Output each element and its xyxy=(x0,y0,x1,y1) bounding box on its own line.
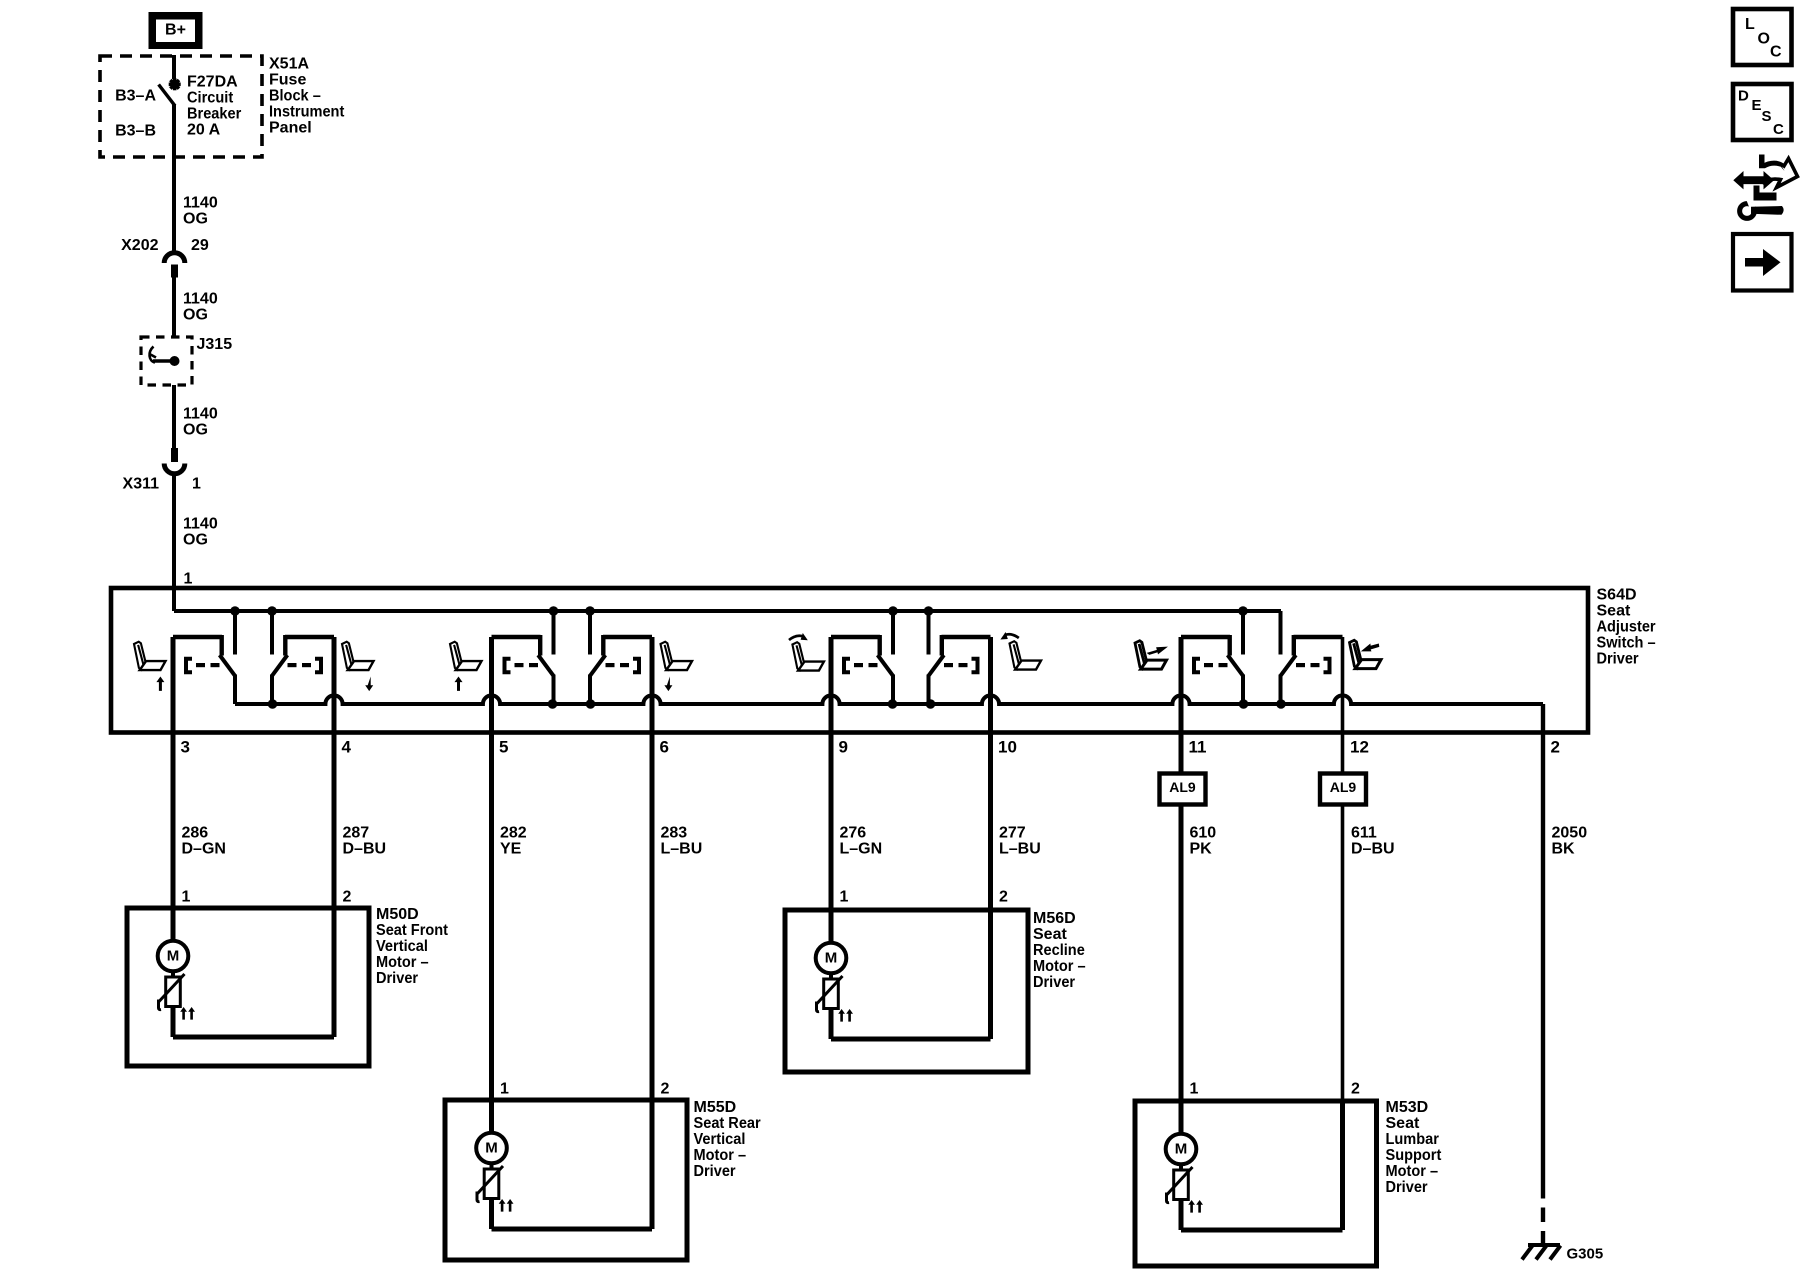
switch front vertical up: movable lever xyxy=(220,655,235,704)
switch recline up: body xyxy=(831,635,880,656)
svg-text:M: M xyxy=(167,948,180,965)
svg-text:2: 2 xyxy=(999,889,1008,906)
motor M56D armature circle M xyxy=(816,943,847,974)
seat icon recline forward with curved arrow xyxy=(789,633,824,671)
svg-text:B+: B+ xyxy=(165,22,186,39)
svg-text:Seat: Seat xyxy=(1597,603,1631,620)
switch front vertical up: body xyxy=(173,635,222,656)
svg-text:M: M xyxy=(1175,1141,1188,1158)
svg-text:283: 283 xyxy=(661,825,688,842)
wire 2050 BK (pin 2 down) xyxy=(1541,735,1545,1184)
svg-text:OG: OG xyxy=(183,307,208,324)
svg-text:6: 6 xyxy=(660,737,669,756)
fuse block X51A dashed outline xyxy=(100,56,262,157)
svg-text:BK: BK xyxy=(1552,841,1576,858)
svg-text:2: 2 xyxy=(1551,737,1560,756)
svg-text:Motor –: Motor – xyxy=(376,954,429,971)
motor M53D wire circle to thermal element xyxy=(1179,1164,1183,1171)
switch front vertical down: body xyxy=(285,635,334,656)
svg-text:Driver: Driver xyxy=(1386,1179,1428,1196)
switch front vertical down: bracket and link dashes xyxy=(288,659,322,672)
wire 611 D-BU (pin 12 to AL9) xyxy=(1341,637,1345,774)
common wire drop to pin 2 xyxy=(1541,704,1545,735)
svg-text:Driver: Driver xyxy=(1597,651,1639,668)
svg-text:OG: OG xyxy=(183,211,208,228)
wire 1140 OG segment 1 xyxy=(172,104,176,251)
svg-text:Switch –: Switch – xyxy=(1597,635,1656,652)
wire 1140 OG segment 2 xyxy=(172,278,176,338)
switch common return wire (to pin 2) xyxy=(235,695,1543,704)
svg-text:1140: 1140 xyxy=(183,406,218,423)
svg-text:1: 1 xyxy=(840,889,849,906)
junction dots on common wire xyxy=(268,699,1286,709)
svg-text:1: 1 xyxy=(184,571,193,588)
seat icon rear-vertical up with up arrow xyxy=(450,642,482,670)
switch rear vertical up: bracket and link dashes xyxy=(505,659,539,672)
seat icon lumbar in with right arrow xyxy=(1135,641,1167,669)
motor M53D outline box xyxy=(1135,1101,1377,1266)
svg-text:L–BU: L–BU xyxy=(999,841,1041,858)
svg-text:C: C xyxy=(1770,44,1782,61)
motor M56D wire circle to thermal element xyxy=(829,973,833,980)
wire 282 YE (pin 5 to M55D pin 1) xyxy=(489,637,494,1133)
switch recline down: movable lever xyxy=(929,655,944,704)
svg-text:286: 286 xyxy=(182,825,209,842)
switch contact stub (bus dot) for lumbar up xyxy=(1238,606,1248,616)
motor M53D thermal protector xyxy=(1167,1167,1193,1203)
switch contact stub (bus dot) for recline up xyxy=(888,606,898,616)
motor M55D armature circle M xyxy=(476,1133,507,1164)
nav icon next-page arrow box xyxy=(1733,234,1792,291)
switch rear vertical down: movable lever xyxy=(590,655,605,704)
wire 1140 OG segment 4 xyxy=(172,475,176,588)
switch rear vertical up: body xyxy=(492,635,541,656)
svg-text:X51A: X51A xyxy=(269,56,309,73)
svg-text:D: D xyxy=(1738,88,1749,105)
svg-text:1: 1 xyxy=(192,476,201,493)
svg-text:1140: 1140 xyxy=(183,291,218,308)
svg-text:611: 611 xyxy=(1351,825,1377,842)
motor M56D direction arrows xyxy=(838,1009,853,1022)
seat icon front-vertical down with down arrow xyxy=(342,642,374,670)
svg-text:276: 276 xyxy=(840,825,867,842)
circuit breaker F27DA contact star xyxy=(169,78,181,90)
motor M50D wire circle to thermal element xyxy=(171,971,175,978)
svg-text:Motor –: Motor – xyxy=(694,1147,747,1164)
motor M50D direction arrows xyxy=(180,1007,195,1020)
svg-text:PK: PK xyxy=(1190,841,1213,858)
bus wire from pin 1 inside S64D xyxy=(172,588,176,611)
switch front vertical up: bracket and link dashes xyxy=(186,659,220,672)
switch recline up: movable lever xyxy=(878,655,893,704)
motor M55D thermal protector xyxy=(477,1166,503,1202)
svg-text:L–BU: L–BU xyxy=(661,841,703,858)
circuit breaker F27DA lever xyxy=(159,85,175,106)
svg-text:O: O xyxy=(1758,31,1770,48)
svg-text:Seat Front: Seat Front xyxy=(376,922,449,939)
svg-text:G305: G305 xyxy=(1567,1246,1604,1263)
svg-text:5: 5 xyxy=(499,737,508,756)
svg-text:Fuse: Fuse xyxy=(269,72,306,89)
svg-text:L–GN: L–GN xyxy=(840,841,883,858)
wire 283 L-BU (pin 6 to M55D pin 2) xyxy=(650,637,655,1100)
svg-text:Seat Rear: Seat Rear xyxy=(694,1115,761,1132)
svg-text:2050: 2050 xyxy=(1552,825,1588,842)
svg-text:Motor –: Motor – xyxy=(1033,958,1086,975)
svg-text:M: M xyxy=(825,950,838,967)
switch contact stub (bus dot) for rear vertical down xyxy=(585,606,595,616)
switch recline up: bracket and link dashes xyxy=(844,659,878,672)
svg-text:1: 1 xyxy=(1190,1081,1199,1098)
svg-text:Motor –: Motor – xyxy=(1386,1163,1439,1180)
pin number labels of S64D xyxy=(181,737,1560,756)
svg-text:OG: OG xyxy=(183,422,208,439)
motor M50D armature circle M xyxy=(158,941,189,972)
switch contact stub (bus dot) for lumbar down xyxy=(1279,611,1283,655)
svg-text:Instrument: Instrument xyxy=(269,104,345,121)
svg-text:AL9: AL9 xyxy=(1169,779,1196,795)
svg-text:Breaker: Breaker xyxy=(187,106,241,123)
svg-text:D–BU: D–BU xyxy=(343,841,387,858)
svg-text:L: L xyxy=(1745,16,1755,33)
switch lumbar down: bracket and link dashes xyxy=(1296,659,1330,672)
svg-text:287: 287 xyxy=(343,825,370,842)
switch lumbar down: movable lever xyxy=(1281,655,1296,704)
splice J315 symbol xyxy=(150,347,180,367)
connector X311 symbol (pin + half circle) xyxy=(164,448,185,474)
seat icon front-vertical up with up arrow xyxy=(134,642,166,670)
svg-text:29: 29 xyxy=(191,237,209,254)
switch recline down: bracket and link dashes xyxy=(944,659,978,672)
svg-text:AL9: AL9 xyxy=(1330,779,1357,795)
svg-text:Driver: Driver xyxy=(694,1163,736,1180)
svg-text:B3–B: B3–B xyxy=(115,123,156,140)
svg-text:D–GN: D–GN xyxy=(182,841,226,858)
svg-text:E: E xyxy=(1752,97,1762,114)
wire 2050 BK dashed continuation to ground xyxy=(1541,1184,1545,1243)
svg-text:282: 282 xyxy=(500,825,527,842)
svg-text:2: 2 xyxy=(1351,1081,1360,1098)
svg-text:Vertical: Vertical xyxy=(694,1131,746,1148)
svg-text:20 A: 20 A xyxy=(187,122,221,139)
svg-text:X202: X202 xyxy=(121,237,158,254)
svg-text:Panel: Panel xyxy=(269,120,312,137)
switch recline down: body xyxy=(942,635,991,656)
connector X202 symbol (half circle + pin) xyxy=(164,253,185,278)
wire 610 PK (pin 11 to AL9) xyxy=(1179,637,1184,774)
svg-text:1140: 1140 xyxy=(183,195,218,212)
wire 277 L-BU (pin 10 to M56D pin 2) xyxy=(988,637,993,910)
switch assembly S64D outline box xyxy=(111,588,1588,733)
svg-text:Adjuster: Adjuster xyxy=(1597,619,1656,636)
svg-text:12: 12 xyxy=(1350,737,1369,756)
svg-text:M: M xyxy=(485,1140,498,1157)
power symbol B+ (battery positive terminal box) xyxy=(149,12,203,49)
svg-text:10: 10 xyxy=(998,737,1017,756)
connector AL9 on wire 611 xyxy=(1320,774,1366,805)
motor M55D wire circle to thermal element xyxy=(490,1163,494,1170)
svg-text:Circuit: Circuit xyxy=(187,90,234,107)
motor M56D outline box xyxy=(785,910,1028,1072)
switch contact stub (bus dot) for front vertical down xyxy=(267,606,277,616)
svg-text:C: C xyxy=(1773,121,1784,138)
motor M56D internal return wire xyxy=(831,910,991,1039)
seat icon rear-vertical down with down arrow xyxy=(661,642,693,670)
bus wire horizontal xyxy=(174,609,1281,613)
switch contact stub (bus dot) for recline down xyxy=(924,606,934,616)
svg-text:Seat: Seat xyxy=(1033,926,1067,943)
svg-text:2: 2 xyxy=(343,889,352,906)
svg-text:S64D: S64D xyxy=(1597,587,1637,604)
splice J315 dashed box xyxy=(141,337,192,385)
switch lumbar down: body xyxy=(1294,635,1343,656)
svg-text:B3–A: B3–A xyxy=(115,88,156,105)
svg-text:YE: YE xyxy=(500,841,522,858)
svg-text:M56D: M56D xyxy=(1033,910,1076,927)
wire 276 L-GN (pin 9 to M56D pin 1) xyxy=(829,637,834,943)
nav icon LOC box xyxy=(1733,9,1792,65)
svg-text:4: 4 xyxy=(342,737,352,756)
svg-text:F27DA: F27DA xyxy=(187,74,238,91)
svg-text:1: 1 xyxy=(500,1081,509,1098)
wire 610 PK (AL9 to M53D pin 1) xyxy=(1179,805,1184,1134)
wire 611 D-BU (AL9 to M53D pin 2) xyxy=(1341,805,1345,1102)
svg-text:Driver: Driver xyxy=(376,970,418,987)
motor M55D direction arrows xyxy=(499,1199,514,1212)
svg-text:J315: J315 xyxy=(197,336,233,353)
svg-text:M55D: M55D xyxy=(694,1099,737,1116)
switch lumbar up: body xyxy=(1181,635,1230,656)
wire 287 D-BU (pin 4 to M50D pin 2) xyxy=(332,637,337,908)
svg-text:S: S xyxy=(1762,108,1772,125)
wire 1140 OG segment 3 xyxy=(172,385,176,449)
motor M53D armature circle M xyxy=(1166,1134,1197,1165)
svg-text:11: 11 xyxy=(1189,737,1207,756)
svg-text:Block –: Block – xyxy=(269,88,321,105)
svg-text:Lumbar: Lumbar xyxy=(1386,1131,1439,1148)
svg-text:610: 610 xyxy=(1190,825,1217,842)
svg-text:Seat: Seat xyxy=(1386,1115,1420,1132)
svg-text:Driver: Driver xyxy=(1033,974,1075,991)
switch front vertical down: movable lever xyxy=(272,655,287,704)
motor M50D internal return wire xyxy=(173,908,334,1037)
svg-text:3: 3 xyxy=(181,737,190,756)
nav icon DESC box xyxy=(1733,84,1792,140)
svg-text:Vertical: Vertical xyxy=(376,938,428,955)
motor M53D internal return wire xyxy=(1181,1101,1343,1230)
switch contact stub (bus dot) for rear vertical up xyxy=(549,606,559,616)
switch rear vertical down: bracket and link dashes xyxy=(606,659,640,672)
svg-text:M53D: M53D xyxy=(1386,1099,1429,1116)
svg-text:OG: OG xyxy=(183,532,208,549)
seat icon recline backward with curved arrow xyxy=(1000,632,1041,670)
svg-text:Recline: Recline xyxy=(1033,942,1085,959)
svg-text:X311: X311 xyxy=(123,476,160,493)
motor M50D outline box xyxy=(127,908,369,1066)
switch rear vertical down: body xyxy=(603,635,652,656)
switch lumbar up: movable lever xyxy=(1228,655,1243,704)
motor M55D internal return wire xyxy=(492,1100,653,1229)
switch rear vertical up: movable lever xyxy=(538,655,553,704)
switch lumbar up: bracket and link dashes xyxy=(1194,659,1228,672)
svg-text:1140: 1140 xyxy=(183,516,218,533)
svg-text:M50D: M50D xyxy=(376,906,419,923)
svg-text:Support: Support xyxy=(1386,1147,1442,1164)
svg-text:D–BU: D–BU xyxy=(1351,841,1395,858)
nav icon swap/tools xyxy=(1733,155,1797,219)
wire 286 D-GN (pin 3 to M50D pin 1) xyxy=(171,637,176,941)
motor M56D thermal protector xyxy=(817,976,843,1012)
motor M50D thermal protector xyxy=(159,974,185,1010)
connector AL9 on wire 610 xyxy=(1160,774,1206,805)
switch contact stub (bus dot) for front vertical up xyxy=(230,606,240,616)
svg-text:277: 277 xyxy=(999,825,1026,842)
svg-text:9: 9 xyxy=(839,737,848,756)
motor M55D outline box xyxy=(445,1100,687,1260)
svg-text:2: 2 xyxy=(661,1081,670,1098)
seat icon lumbar out with left arrow xyxy=(1350,640,1382,668)
wire from fuse block top to circuit breaker xyxy=(172,55,176,79)
motor M53D direction arrows xyxy=(1188,1200,1203,1213)
svg-text:1: 1 xyxy=(182,889,191,906)
ground G305 symbol xyxy=(1522,1245,1561,1260)
